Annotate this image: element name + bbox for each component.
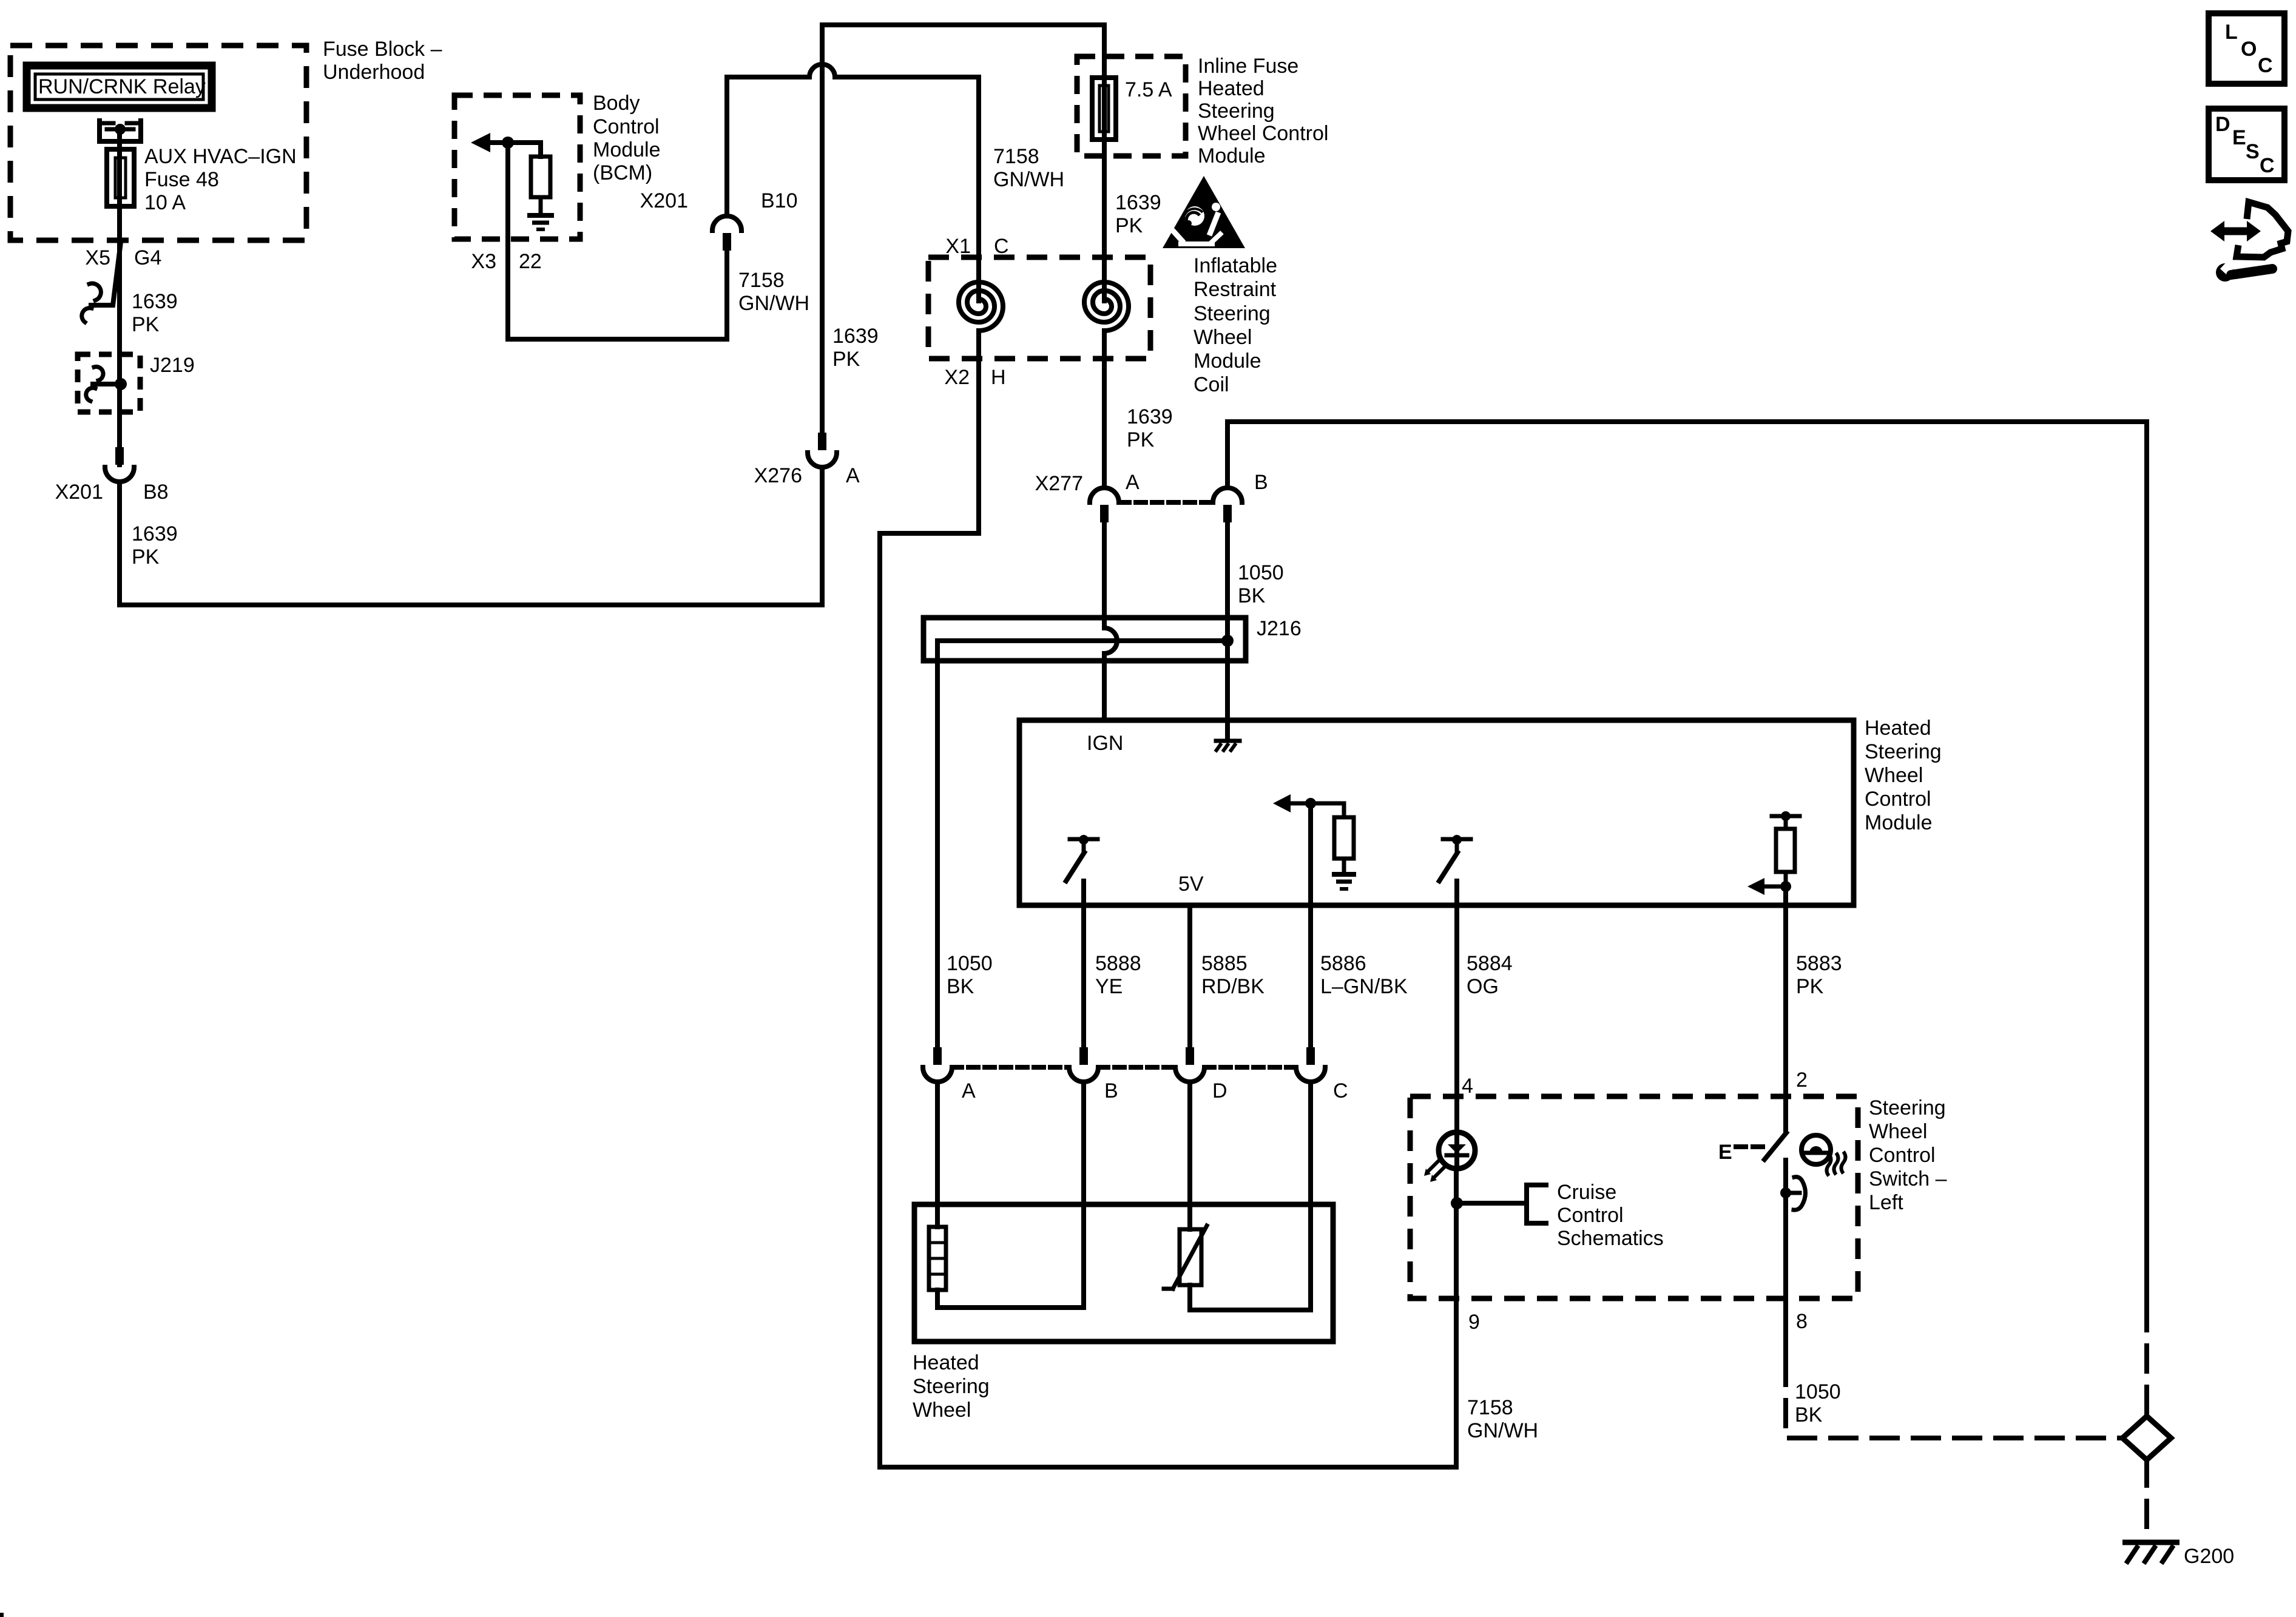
wire label 5888 YE	[1095, 952, 1141, 998]
wire from left coil X2/H down and around to cruise pin 9 wire	[880, 331, 1456, 1467]
wire from X201 B10 up and right to coil X1/C with hop over riser	[727, 64, 979, 301]
svg-text:5V: 5V	[1178, 873, 1204, 896]
svg-text:G4: G4	[134, 246, 161, 269]
steering wheel connector pin A	[923, 1047, 952, 1082]
steering wheel heat icon	[1801, 1135, 1846, 1176]
wire 1050 BK label (below X277 B)	[1238, 561, 1284, 607]
svg-text:1050: 1050	[1238, 561, 1284, 584]
svg-text:Restraint: Restraint	[1194, 278, 1277, 301]
wire from right coil down to X277 A	[1102, 331, 1107, 488]
wire 5883 from module to switch pin 2	[1783, 892, 1788, 1132]
relay output terminal	[100, 121, 141, 141]
svg-text:Module: Module	[1198, 144, 1266, 167]
svg-text:1050: 1050	[947, 952, 993, 975]
svg-text:H: H	[991, 366, 1006, 389]
labels X201 B8	[55, 481, 169, 504]
in-line connector lead at X5/G4	[82, 242, 121, 322]
labels X277 A B	[1035, 471, 1268, 495]
svg-text:1639: 1639	[832, 325, 879, 348]
svg-text:L–GN/BK: L–GN/BK	[1320, 975, 1408, 998]
svg-text:PK: PK	[1796, 975, 1824, 998]
svg-text:B8: B8	[143, 481, 169, 504]
connector X201 pin B8	[105, 447, 134, 482]
svg-text:X5: X5	[85, 246, 110, 269]
wire 5886 from module to connector C	[1308, 809, 1313, 1047]
connector row dashed links	[952, 1065, 1296, 1070]
svg-text:C: C	[2258, 54, 2273, 77]
fuse block underhood dashed box	[10, 46, 306, 240]
wire 1050 BK from X277 B down into module ground	[1225, 522, 1230, 739]
svg-text:Left: Left	[1869, 1191, 1903, 1214]
connector X201 pin B10	[712, 216, 741, 251]
svg-text:BK: BK	[947, 975, 974, 998]
ground splice diamond	[2122, 1416, 2171, 1460]
svg-text:X276: X276	[754, 464, 802, 487]
wire 5885 from module 5V to connector D	[1187, 905, 1192, 1047]
thermistor	[1164, 1226, 1207, 1289]
svg-text:5883: 5883	[1796, 952, 1842, 975]
steering wheel control switch dashed box	[1410, 1096, 1858, 1298]
pin 5V label	[1178, 873, 1204, 896]
svg-text:Inline Fuse: Inline Fuse	[1198, 55, 1298, 78]
svg-text:Fuse Block –: Fuse Block –	[323, 38, 442, 61]
heated steering wheel switch lever	[1764, 1133, 1786, 1160]
wire label 5884 OG	[1467, 952, 1513, 998]
svg-text:Steering: Steering	[1198, 100, 1275, 123]
module switch 2 (cruise)	[1439, 835, 1471, 881]
dashed wire from diamond to G200	[2144, 1460, 2149, 1539]
wire label 1050 BK (J216 lead)	[947, 952, 993, 998]
svg-text:E: E	[1718, 1141, 1732, 1164]
wire 1639 PK from X201 B8 to X276 A	[120, 467, 822, 605]
svg-text:7.5 A: 7.5 A	[1125, 78, 1172, 101]
svg-text:A: A	[962, 1079, 976, 1102]
svg-text:GN/WH: GN/WH	[1467, 1419, 1538, 1442]
steering wheel connector pin C	[1296, 1047, 1325, 1082]
svg-text:X3: X3	[471, 250, 496, 273]
svg-text:1639: 1639	[132, 522, 178, 545]
svg-text:Heated: Heated	[1198, 77, 1264, 100]
svg-text:PK: PK	[832, 348, 860, 371]
BCM internal resistor	[531, 157, 550, 197]
svg-text:Cruise: Cruise	[1557, 1181, 1616, 1204]
connector X3 pin 22 labels	[471, 250, 541, 273]
svg-text:B: B	[1254, 471, 1268, 494]
label J216	[1257, 617, 1302, 640]
BCM serial data arrow	[471, 133, 541, 157]
relay RUN/CRNK	[27, 66, 212, 108]
svg-text:Steering: Steering	[913, 1375, 990, 1398]
svg-text:Control: Control	[593, 115, 660, 138]
BCM internal ground	[527, 197, 554, 229]
labels X276 A	[754, 464, 860, 487]
fuse 48 value label	[144, 145, 297, 214]
svg-text:RD/BK: RD/BK	[1201, 975, 1264, 998]
svg-text:RUN/CRNK Relay: RUN/CRNK Relay	[38, 75, 206, 98]
connector X276 pin A	[808, 433, 837, 467]
cruise control schematics label	[1557, 1181, 1664, 1250]
wire 7158 GN/WH label (right of X1 wire)	[993, 145, 1064, 191]
svg-text:J216: J216	[1257, 617, 1302, 640]
svg-text:PK: PK	[1127, 428, 1155, 451]
module switch 1 (heater)	[1066, 835, 1098, 881]
wires from connector row into heated steering wheel	[937, 1082, 1311, 1310]
wire 1639 PK label (riser above X276)	[832, 325, 879, 371]
body control module BCM dashed box	[454, 95, 580, 239]
svg-text:Wheel: Wheel	[1865, 764, 1923, 787]
switch lower contact wire with splice hook	[1780, 1160, 1806, 1359]
fuse F48 AUX HVAC-IGN 10A	[107, 149, 134, 206]
svg-text:YE: YE	[1095, 975, 1123, 998]
wire from relay through fuse 48 down to connector X201 B8	[117, 129, 122, 465]
labels X201 B10	[640, 189, 798, 212]
riser wire from X276 up to top and right to inline fuse	[822, 25, 1104, 433]
svg-text:C: C	[1333, 1079, 1348, 1102]
svg-text:D: D	[2215, 113, 2230, 136]
wire ground path from X277 B up over to right side and down to G200	[1227, 422, 2147, 1305]
inflatable restraint coil dashed box	[928, 257, 1150, 359]
svg-text:GN/WH: GN/WH	[738, 292, 809, 315]
wire 5884 from switch 2 to cruise LED	[1454, 881, 1459, 1130]
wire 1639 PK label (below X5)	[132, 290, 178, 336]
svg-text:7158: 7158	[738, 269, 785, 292]
svg-text:L: L	[2225, 21, 2238, 44]
module label	[1865, 717, 1942, 834]
heated steering wheel control module box	[1019, 720, 1854, 905]
svg-text:Inflatable: Inflatable	[1194, 254, 1277, 277]
connector X277 pin A	[1090, 488, 1119, 522]
svg-text:Fuse 48: Fuse 48	[144, 168, 219, 191]
svg-text:(BCM): (BCM)	[593, 161, 652, 184]
svg-text:Module: Module	[1865, 811, 1933, 834]
svg-text:O: O	[2241, 38, 2257, 61]
svg-text:Wheel: Wheel	[1194, 326, 1252, 349]
svg-text:Heated: Heated	[913, 1351, 979, 1374]
svg-text:Wheel: Wheel	[1869, 1120, 1927, 1143]
module driver resistor and output arrow (5883)	[1747, 811, 1800, 895]
wire 1639 PK label (below inline fuse)	[1115, 191, 1161, 237]
svg-text:Module: Module	[1194, 349, 1261, 373]
steering wheel connector pin B	[1069, 1047, 1098, 1082]
X277 A-B dashed link	[1119, 500, 1212, 505]
heated steering wheel switch node E	[1718, 1141, 1763, 1164]
coil box label	[1194, 254, 1277, 396]
fuse 7.5 A symbol	[1092, 78, 1116, 140]
module internal earth ground	[1332, 874, 1356, 889]
svg-text:OG: OG	[1467, 975, 1499, 998]
svg-text:Underhood: Underhood	[323, 61, 425, 84]
connector X5 pin G4 labels	[85, 246, 161, 269]
svg-text:BK: BK	[1238, 584, 1266, 607]
svg-text:7158: 7158	[1467, 1396, 1513, 1419]
clockspring coil left	[959, 282, 1003, 331]
svg-text:10 A: 10 A	[144, 191, 186, 214]
J216 internal lead to heated steering wheel	[937, 635, 1234, 1047]
connector repair tool icon	[2210, 202, 2288, 282]
svg-text:8: 8	[1796, 1310, 1808, 1333]
connector X2 pin H labels	[944, 366, 1005, 389]
wire label 5883 PK	[1796, 952, 1842, 998]
svg-text:C: C	[2260, 154, 2275, 177]
cruise indicator LED	[1424, 1132, 1475, 1182]
wire label 5886 L-GN/BK	[1320, 952, 1408, 998]
splice pack J216 box	[923, 618, 1246, 661]
svg-text:IGN: IGN	[1087, 732, 1123, 755]
wire 7158 GN/WH label (below B10)	[738, 269, 809, 315]
page corner mark	[0, 1613, 4, 1617]
svg-text:Steering: Steering	[1869, 1096, 1946, 1119]
svg-text:Control: Control	[1869, 1144, 1936, 1167]
wire dashed from right side down to ground splice	[2144, 1305, 2149, 1416]
svg-text:1050: 1050	[1795, 1380, 1841, 1403]
svg-text:B10: B10	[761, 189, 798, 212]
connector pin letters A B D C	[962, 1079, 1348, 1102]
ground G200	[2122, 1542, 2180, 1564]
wire 5888 from switch 1 to connector B	[1081, 881, 1086, 1047]
svg-text:Switch –: Switch –	[1869, 1167, 1947, 1190]
label G200	[2184, 1545, 2234, 1568]
svg-text:5886: 5886	[1320, 952, 1366, 975]
svg-text:1639: 1639	[132, 290, 178, 313]
module sensor input arrow and pull-up resistor	[1273, 794, 1354, 873]
pin IGN label	[1087, 732, 1123, 755]
svg-text:J219: J219	[150, 354, 195, 377]
svg-text:GN/WH: GN/WH	[993, 168, 1064, 191]
inline fuse dashed box	[1077, 56, 1186, 156]
fuse block underhood label	[323, 38, 442, 84]
svg-text:Steering: Steering	[1194, 302, 1271, 325]
svg-text:22: 22	[519, 250, 542, 273]
module internal chassis ground	[1215, 741, 1240, 752]
svg-text:B: B	[1104, 1079, 1118, 1102]
svg-text:C: C	[994, 235, 1009, 258]
pin 8 label	[1796, 1310, 1808, 1333]
BCM label	[593, 92, 661, 184]
svg-text:A: A	[1126, 471, 1140, 494]
svg-text:Control: Control	[1865, 788, 1931, 811]
svg-text:2: 2	[1796, 1068, 1808, 1092]
svg-text:X2: X2	[944, 366, 970, 389]
splice J219 symbol	[86, 366, 127, 401]
svg-text:PK: PK	[132, 545, 160, 569]
svg-text:X277: X277	[1035, 472, 1083, 495]
wire 1050 BK dashed run to ground splice	[1786, 1359, 2122, 1438]
svg-text:X201: X201	[640, 189, 688, 212]
svg-text:E: E	[2232, 126, 2246, 149]
wire 1639 PK label (below B8)	[132, 522, 178, 569]
wire 7158 GN/WH label (below pin 9)	[1467, 1396, 1538, 1442]
pin 9 label	[1468, 1311, 1480, 1334]
svg-text:D: D	[1212, 1079, 1227, 1102]
svg-text:PK: PK	[1115, 214, 1143, 237]
heater element	[929, 1227, 946, 1290]
svg-text:G200: G200	[2184, 1545, 2234, 1568]
steering wheel control switch label	[1869, 1096, 1947, 1214]
svg-text:Coil: Coil	[1194, 373, 1229, 396]
svg-text:BK: BK	[1795, 1403, 1823, 1426]
svg-text:Body: Body	[593, 92, 640, 115]
svg-text:5885: 5885	[1201, 952, 1248, 975]
wire IGN from X277 A to module with hop over J216 lead	[1104, 522, 1117, 720]
thermistor return wire to 5886	[1190, 1285, 1311, 1310]
svg-text:7158: 7158	[993, 145, 1039, 168]
svg-text:Schematics: Schematics	[1557, 1227, 1664, 1250]
wire 1050 BK label (below pin 8)	[1795, 1380, 1841, 1426]
svg-text:AUX HVAC–IGN: AUX HVAC–IGN	[144, 145, 297, 168]
svg-text:S: S	[2246, 140, 2260, 163]
svg-text:X201: X201	[55, 481, 103, 504]
label J219	[150, 354, 195, 377]
svg-text:Wheel: Wheel	[913, 1399, 971, 1422]
airbag caution triangle	[1163, 176, 1245, 248]
heated steering wheel label	[913, 1351, 990, 1422]
cruise control schematics reference bracket	[1457, 1185, 1546, 1223]
clockspring coil right	[1084, 282, 1129, 331]
svg-text:1639: 1639	[1127, 405, 1173, 428]
label 7.5 A	[1125, 78, 1172, 101]
svg-text:A: A	[846, 464, 860, 487]
pin 4 label	[1462, 1075, 1473, 1098]
svg-text:Heated: Heated	[1865, 717, 1931, 740]
svg-text:1639: 1639	[1115, 191, 1161, 214]
junction node on LED wire	[1451, 1197, 1463, 1209]
splice J219 dashed box	[78, 354, 140, 412]
pin 2 label	[1796, 1068, 1808, 1092]
BCM internal junction	[502, 137, 514, 149]
svg-text:5888: 5888	[1095, 952, 1141, 975]
svg-text:Control: Control	[1557, 1204, 1624, 1227]
wire 7158 GN/WH from BCM X3/22 to X201 B10	[508, 148, 727, 339]
heated steering wheel box	[914, 1204, 1333, 1342]
wire label 5885 RD/BK	[1201, 952, 1264, 998]
connector X1 pin C labels	[945, 235, 1008, 258]
wire 1639 PK label (below right coil)	[1127, 405, 1173, 451]
svg-text:Module: Module	[593, 138, 661, 161]
inline fuse module label	[1198, 55, 1328, 167]
connector X277 pin B	[1213, 488, 1242, 522]
DESC reference icon	[2209, 109, 2284, 180]
svg-text:Wheel Control: Wheel Control	[1198, 122, 1328, 145]
heater element return wire to 5888	[937, 1290, 1084, 1308]
svg-text:5884: 5884	[1467, 952, 1513, 975]
steering wheel connector pin D	[1175, 1047, 1204, 1082]
svg-text:4: 4	[1462, 1075, 1473, 1098]
LOC reference icon	[2209, 13, 2284, 84]
svg-text:X1: X1	[945, 235, 971, 258]
svg-text:PK: PK	[132, 313, 160, 336]
svg-text:9: 9	[1468, 1311, 1480, 1334]
svg-text:Steering: Steering	[1865, 740, 1942, 763]
